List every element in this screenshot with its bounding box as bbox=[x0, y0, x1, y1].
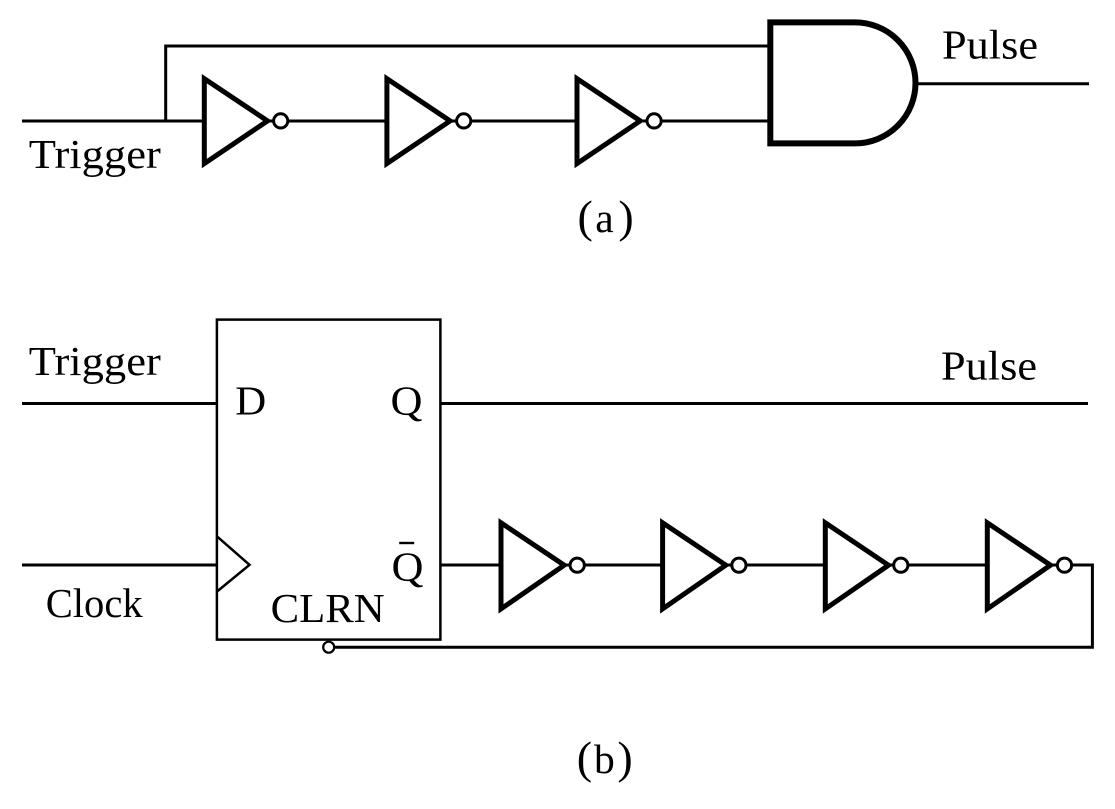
svg-text:Clock: Clock bbox=[46, 580, 143, 626]
svg-text:Trigger: Trigger bbox=[29, 131, 161, 177]
svg-text:D: D bbox=[235, 378, 266, 424]
svg-text:Q: Q bbox=[392, 544, 424, 590]
svg-text:Pulse: Pulse bbox=[941, 343, 1037, 389]
svg-text:Pulse: Pulse bbox=[942, 22, 1038, 68]
svg-text:Q: Q bbox=[391, 377, 423, 423]
svg-text:(b): (b) bbox=[577, 732, 633, 783]
svg-text:Trigger: Trigger bbox=[29, 338, 161, 384]
svg-text:CLRN: CLRN bbox=[271, 585, 385, 631]
svg-text:(a): (a) bbox=[578, 191, 634, 242]
